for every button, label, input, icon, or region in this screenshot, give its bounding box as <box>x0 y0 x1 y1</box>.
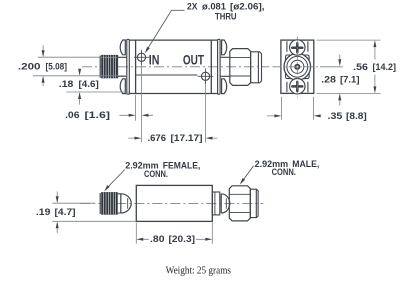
hole 1 (IN side) <box>134 50 149 142</box>
right flange dome side view <box>221 194 230 213</box>
svg-text:.80: .80 <box>150 234 165 244</box>
female coupling nut side view <box>100 192 118 215</box>
male barrel side view <box>250 189 258 217</box>
svg-text:.18: .18 <box>59 79 73 89</box>
dim .200 [5.08] <box>18 45 128 86</box>
centerline side view <box>80 202 263 204</box>
male interface barrel top view <box>251 52 262 83</box>
svg-text:.676: .676 <box>148 133 167 143</box>
svg-text:[5.08]: [5.08] <box>46 62 68 72</box>
centerline top view <box>82 66 269 68</box>
bottom screw boss edges <box>287 82 308 92</box>
svg-text:FEMALE,: FEMALE, <box>163 160 201 170</box>
svg-text:THRU: THRU <box>215 12 237 22</box>
left flange dome side view <box>121 194 131 213</box>
top screw boss edges <box>287 41 308 51</box>
body internal edge line <box>136 74 198 76</box>
svg-text:.06: .06 <box>65 110 80 120</box>
dim .06 [1.6] <box>65 95 153 121</box>
svg-text:[4.7]: [4.7] <box>55 207 76 217</box>
connector concentric circles <box>284 54 311 81</box>
main cylinder side view <box>136 185 212 221</box>
svg-text:.200: .200 <box>18 62 41 72</box>
dim .18 [4.6] <box>59 69 129 105</box>
dim .56 [14.2] <box>317 40 397 93</box>
dim .80 [20.3] <box>136 223 212 245</box>
end view vertical centerline <box>296 37 298 98</box>
svg-text:ø.081: ø.081 <box>202 1 226 11</box>
left flange tab top <box>120 40 125 55</box>
svg-text:[17.17]: [17.17] <box>171 133 203 143</box>
right flange tab bottom <box>222 79 227 94</box>
svg-text:IN: IN <box>149 52 160 67</box>
hole 2 (OUT side) <box>198 68 214 142</box>
svg-text:[8.8]: [8.8] <box>346 111 367 121</box>
svg-text:[7.1]: [7.1] <box>340 74 360 84</box>
body outline top view <box>129 40 217 93</box>
male neck top view <box>220 57 230 76</box>
svg-text:[ø2.06],: [ø2.06], <box>230 1 265 11</box>
male connector label <box>240 159 319 185</box>
svg-text:[1.6]: [1.6] <box>85 110 111 120</box>
svg-text:CONN.: CONN. <box>272 167 296 177</box>
svg-text:OUT: OUT <box>183 52 205 67</box>
end view horizontal centerline <box>273 66 321 68</box>
right flange plate lines <box>218 39 221 94</box>
svg-text:[20.3]: [20.3] <box>169 234 196 244</box>
svg-text:[14.2]: [14.2] <box>373 62 397 72</box>
svg-text:Weight: 25 grams: Weight: 25 grams <box>166 265 231 277</box>
svg-text:2X: 2X <box>187 1 198 11</box>
right ring side view <box>212 192 220 215</box>
dim .676 [17.17] <box>128 133 217 143</box>
end view outer flange rect <box>281 40 314 93</box>
male hex nut top view <box>230 49 251 86</box>
svg-text:.19: .19 <box>36 207 51 217</box>
svg-text:[4.6]: [4.6] <box>79 79 99 89</box>
female connector label <box>104 160 200 191</box>
hole label leader <box>145 1 265 53</box>
dim .19 [4.7] <box>36 192 136 234</box>
left flange plate lines <box>127 39 130 94</box>
top screw <box>290 40 305 55</box>
left flange tab bottom <box>120 79 125 94</box>
dim .28 [7.1] <box>321 55 359 106</box>
svg-text:CONN.: CONN. <box>144 169 168 179</box>
male hex nut side view <box>229 186 250 221</box>
female neck side view <box>118 194 121 213</box>
female connector neck top view <box>118 55 127 78</box>
female coupling nut (threads) top view <box>100 55 117 78</box>
svg-text:MALE,: MALE, <box>292 159 319 169</box>
bottom screw <box>290 79 305 94</box>
svg-text:.28: .28 <box>321 74 336 84</box>
svg-text:.56: .56 <box>353 62 368 72</box>
dim .35 [8.8] <box>267 97 367 121</box>
svg-text:.35: .35 <box>328 111 343 121</box>
connector square boss <box>286 55 310 79</box>
right flange tab top <box>222 40 227 55</box>
